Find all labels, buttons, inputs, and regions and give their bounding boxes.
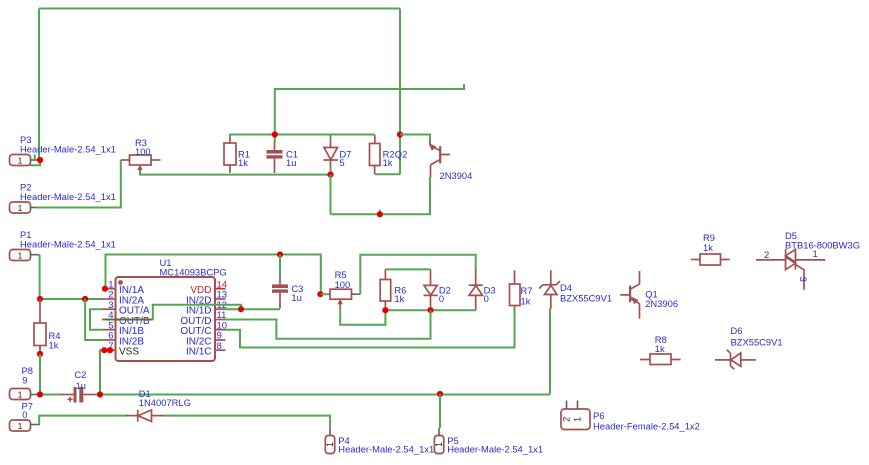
label D2 [439,284,451,304]
junction dot VSS b [107,347,113,353]
label C2 [74,369,86,391]
junction dot D7 bottom [327,172,333,178]
svg-text:0: 0 [22,409,27,420]
wire long bottom rail [97,394,551,396]
wire net1 right drop [399,9,401,175]
svg-text:2: 2 [764,250,769,261]
svg-text:Q2: Q2 [395,149,408,160]
wire OUT/A to IN/1B loop [90,309,102,330]
svg-text:1u: 1u [286,157,296,168]
connector P1 [10,250,40,261]
svg-text:1u: 1u [76,380,86,391]
wire P2 to R3 [37,160,121,208]
label D5 pin1 [813,249,818,260]
capacitor C3 [272,277,288,309]
label R4 [49,330,61,351]
svg-text:0: 0 [439,293,444,304]
junction dot C3 top [277,251,283,257]
svg-text:1k: 1k [49,340,59,351]
svg-text:IN/1C: IN/1C [186,347,212,358]
junction dot P3 node [37,157,43,163]
label Q2 [395,149,473,182]
svg-text:1: 1 [18,203,23,213]
wire D4 bottom to P8 rail [549,309,551,395]
wire P5 drop [439,394,441,428]
wire C1 top to node X [274,135,276,143]
connector P4 [325,428,335,454]
svg-text:1k: 1k [383,157,393,168]
ic U1 pin names [119,285,212,358]
wire D1 to P4 [164,416,330,429]
wire P7 to D1 [39,416,126,425]
junction dot pin1 [102,286,108,292]
wire P3 stub [34,155,36,160]
resistor R8 [640,354,681,365]
resistor R6 [380,269,391,310]
wire pin1 rail [106,255,321,295]
junction dot P8 [37,391,43,397]
svg-text:R7: R7 [521,285,533,296]
svg-text:BZX55C9V1: BZX55C9V1 [731,337,783,348]
svg-text:Header-Female-2.54_1x2: Header-Female-2.54_1x2 [593,421,700,432]
transistor Q2 [429,141,450,178]
wire net1 to Q2 emitter [400,135,430,142]
capacitor C1 [267,141,283,173]
connector P7 [10,420,41,431]
wire R3 wiper to node A [140,173,331,175]
svg-text:8: 8 [217,341,222,352]
svg-text:Header-Male-2.54_1x1: Header-Male-2.54_1x1 [338,444,434,455]
wire pin6 feed [85,299,102,340]
wire R4 to P8 rail [39,354,41,395]
label P1 [20,229,116,250]
svg-text:100: 100 [335,279,351,290]
junction dot node X / C1 [272,131,278,137]
svg-text:P6: P6 [593,410,604,421]
junction dot pin6 branch [82,296,88,302]
capacitor C2 [60,387,97,403]
label D5 pin3 [797,277,808,282]
resistor R7 [510,270,521,305]
label R9 [703,232,715,253]
label Q1 [645,289,678,310]
wire pin12 net [225,308,280,310]
wire rail2 C1-top feed [275,84,464,135]
junction dot net1/Q2 [397,131,403,137]
svg-text:0: 0 [484,293,489,304]
svg-text:5: 5 [339,157,344,168]
svg-text:D6: D6 [731,325,743,336]
zener D6 [715,350,756,370]
transistor Q1 [620,271,639,319]
svg-text:VSS: VSS [119,347,139,358]
svg-text:1: 1 [18,251,23,261]
svg-text:1k: 1k [521,296,531,307]
connector P5 [434,428,444,454]
diode D2 [424,269,438,309]
wire pin11 net [225,310,431,339]
svg-text:2N3904: 2N3904 [440,170,473,181]
svg-text:9: 9 [22,375,27,386]
label D1 [139,388,191,408]
diode D7 [324,138,339,169]
label D5 [785,230,860,251]
wire R6-D2 top link [385,268,430,270]
svg-text:Header-Male-2.54_1x1: Header-Male-2.54_1x1 [20,239,116,250]
wire pin10 net [225,306,515,348]
svg-text:Header-Male-2.54_1x1: Header-Male-2.54_1x1 [20,144,116,155]
svg-text:1: 1 [813,249,818,260]
wire P3 hook [30,160,41,165]
svg-text:1k: 1k [703,242,713,253]
wire stub on bottom rail [379,210,381,215]
wire D7 top [330,135,332,140]
junction dot P5 branch [437,391,443,397]
label R6 [394,284,406,304]
svg-text:BTB16-800BW3G: BTB16-800BW3G [785,240,860,251]
label C3 [291,283,303,303]
wire P8 to C2 [40,394,61,396]
svg-text:BZX55C9V1: BZX55C9V1 [560,292,612,303]
resistor R9 [691,254,730,265]
diode D1 [126,410,165,422]
svg-text:Header-Male-2.54_1x1: Header-Male-2.54_1x1 [20,191,116,202]
label C1 [286,149,298,169]
wire node X horizontal [229,134,375,136]
wire R5 right riser [360,255,475,295]
label D5 pin2 [764,250,769,261]
wire D7 bottom [330,169,332,175]
ic U1 pin numbers [108,279,227,352]
resistor R4 [34,299,46,354]
svg-text:1N4007RLG: 1N4007RLG [139,397,191,408]
wire node A drop [330,175,332,215]
potentiometer R5 [321,289,361,307]
svg-text:3: 3 [797,277,808,282]
connector P2 [10,202,38,213]
svg-text:C2: C2 [74,369,86,380]
wire C3 top lead [279,255,281,278]
wire D2-node [385,309,475,311]
connector P3 [10,155,38,166]
label D3 [484,284,496,304]
svg-text:1k: 1k [394,293,404,304]
junction dot bottom rail [377,211,383,217]
diode D3 [469,269,483,310]
resistor R2 [370,135,381,175]
label P7 [22,401,33,421]
wire Q2 collector down [331,177,431,214]
svg-text:1: 1 [18,390,23,400]
triac D5 [756,249,825,290]
label P2 [20,182,116,203]
svg-text:MC14093BCPG: MC14093BCPG [160,267,227,278]
svg-text:2N3906: 2N3906 [645,298,678,309]
svg-text:1: 1 [434,442,444,447]
wire R5 wiper net [340,307,385,325]
ic U1 body [116,277,216,361]
wire R1 top [229,135,231,138]
junction dot VSS a [101,347,107,353]
zener D4 [539,270,560,309]
svg-text:1: 1 [18,156,23,166]
wire VSS feed [100,350,104,394]
junction dot pin12 [238,306,244,312]
junction dot C2 right [97,391,103,397]
junction dot R4 bottom [37,351,43,357]
wire OUT/B crossover [105,305,242,321]
label P5 [447,435,543,455]
junction dot P1 branch [37,296,43,302]
junction dot R6 bottom [382,307,388,313]
wire R2 bottom jog [375,173,400,175]
connector P8 [10,389,41,400]
svg-text:Header-Male-2.54_1x1: Header-Male-2.54_1x1 [447,444,543,455]
svg-text:1: 1 [18,421,23,431]
ic U1 pin stubs [102,289,226,351]
svg-text:1: 1 [325,442,335,447]
connector P6 [561,401,590,430]
label R1 [238,149,250,169]
label P4 [338,435,434,455]
label U1 [160,257,227,278]
label R5 [335,269,351,290]
svg-text:1: 1 [573,417,583,422]
label P8 [22,365,33,386]
label P6 [593,410,700,432]
svg-text:1u: 1u [291,292,301,303]
label R3 [135,137,151,157]
wire P1 down [39,255,41,299]
label D4 [560,282,612,303]
resistor R1 [224,137,236,173]
label P3 [20,134,116,155]
label D6 [731,325,783,348]
wire net1 left drop to P3 [38,9,40,160]
wire top rail net1 [39,8,400,10]
label R7 [521,285,533,307]
wire pin2 feed [40,298,102,300]
label R2 [383,149,395,169]
svg-text:1k: 1k [238,157,248,168]
label R8 [655,334,667,354]
junction dot D2 bottom [427,307,433,313]
svg-text:100: 100 [135,146,151,157]
svg-text:2: 2 [562,417,572,422]
potentiometer R3 [121,155,161,173]
junction dot R5 left [317,291,323,297]
label D7 [339,149,351,169]
svg-text:1k: 1k [655,343,665,354]
